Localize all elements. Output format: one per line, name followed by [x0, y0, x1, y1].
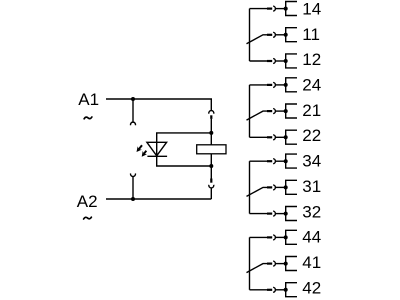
svg-text:42: 42: [302, 278, 321, 297]
svg-text:44: 44: [302, 228, 321, 247]
svg-text:21: 21: [302, 101, 321, 120]
svg-text:34: 34: [302, 152, 321, 171]
svg-text:41: 41: [302, 253, 321, 272]
svg-text:31: 31: [302, 177, 321, 196]
svg-text:11: 11: [302, 25, 320, 44]
svg-text:24: 24: [302, 76, 321, 95]
svg-text:22: 22: [302, 126, 321, 145]
svg-text:32: 32: [302, 202, 321, 221]
svg-text:12: 12: [302, 50, 321, 69]
svg-text:14: 14: [302, 0, 321, 18]
svg-text:A2: A2: [77, 192, 98, 211]
svg-text:A1: A1: [78, 90, 99, 109]
